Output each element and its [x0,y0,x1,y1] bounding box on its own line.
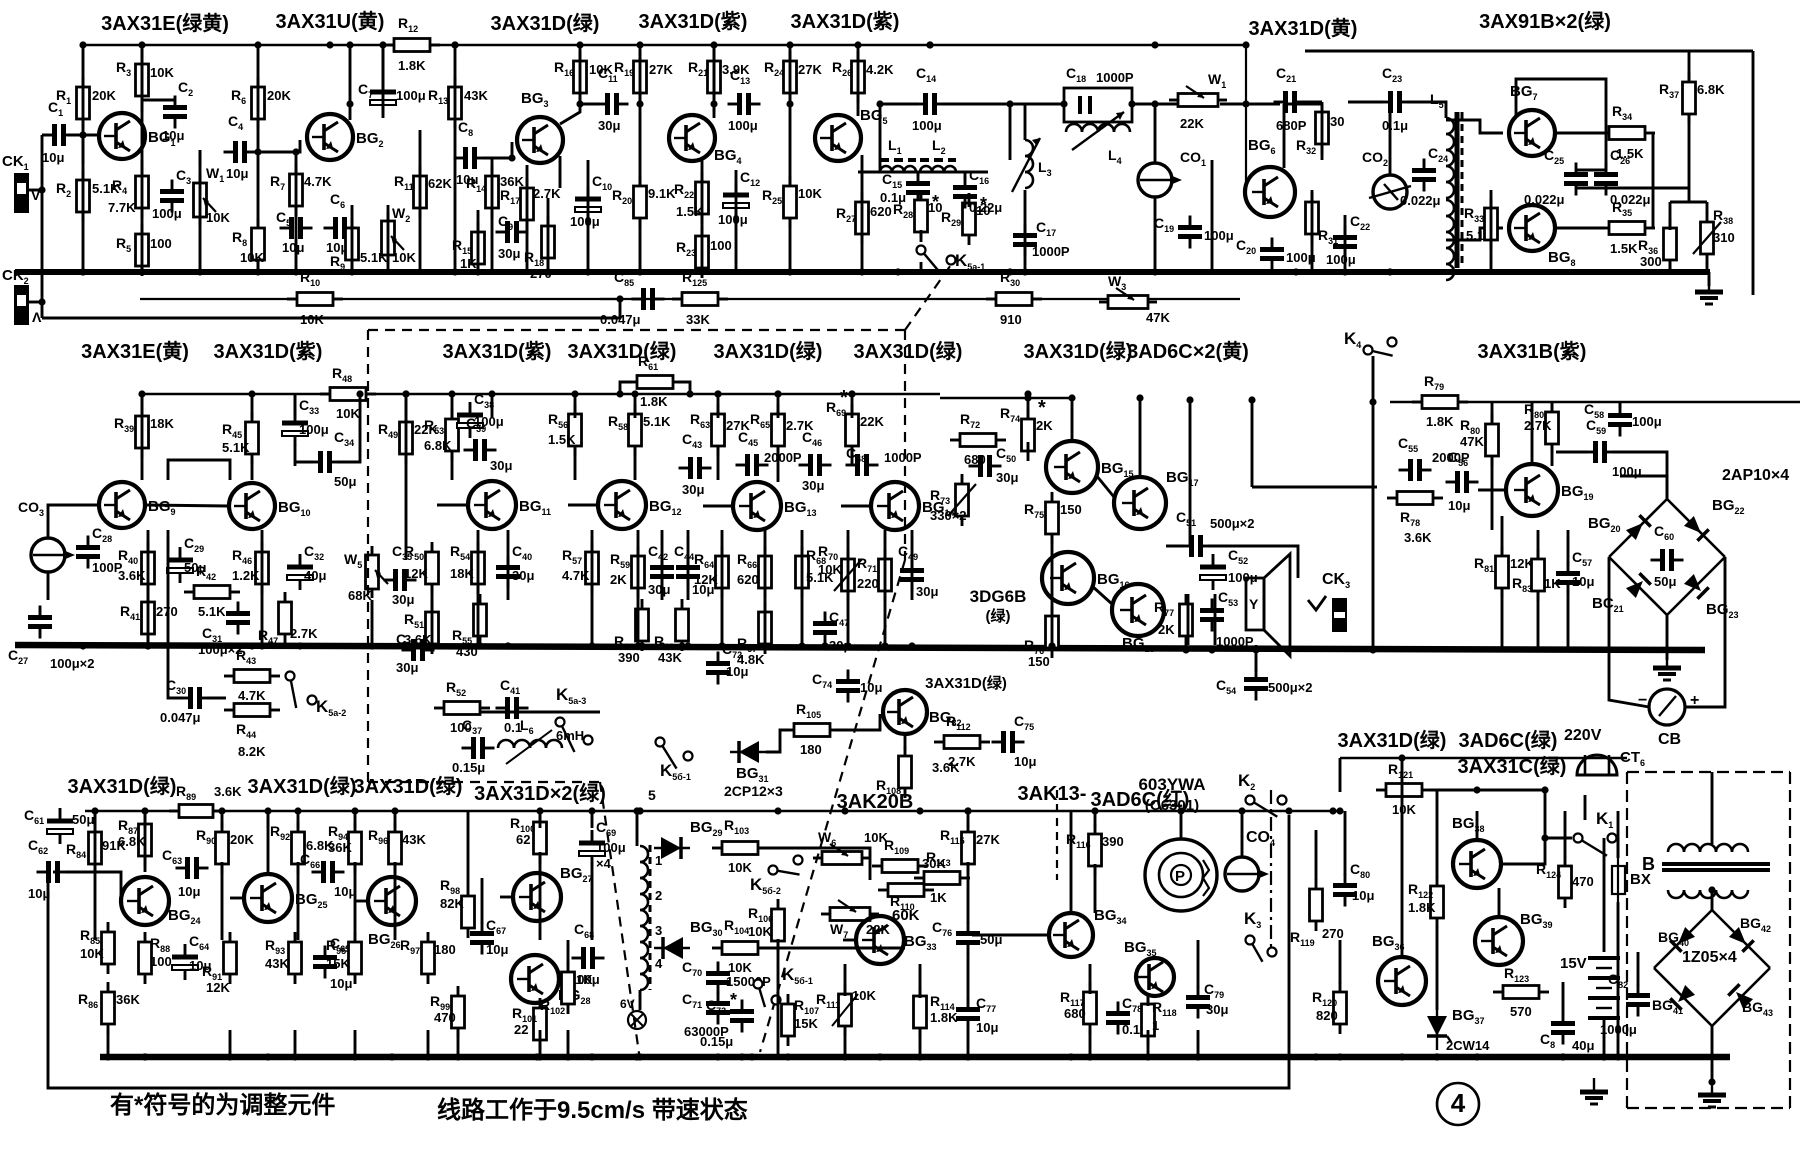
wire L5 top to BG7 [1446,120,1503,133]
junction mid bus x852 [848,390,855,397]
switch K2 [1238,771,1287,817]
label stage7 3AX91B [1479,9,1611,33]
svg-text:10μ: 10μ [28,886,50,901]
wire bot col dn x355 [354,1030,357,1057]
junction extra 432-646 [428,642,435,649]
wire top col x1155 [1154,196,1157,272]
junction bot gnd x845 [841,1053,848,1060]
wire C1 out [68,134,99,137]
transistor BG26 [368,877,416,950]
junction extra 1010-272 [1006,268,1013,275]
svg-text:100: 100 [150,236,172,251]
junction bot gnd x1148 [1144,1053,1151,1060]
switch K5a-1 [917,246,986,275]
transistor BG7 [1509,83,1555,156]
svg-text:8.2K: 8.2K [238,744,266,759]
switch K5a-2 [286,672,347,719]
wire BG14 base in [841,505,871,508]
wire R34 right vert [1652,133,1655,228]
resistor R89 [169,783,242,818]
junction extra 638-646 [634,642,641,649]
capacitor C44 [674,543,714,597]
resistor R81 [1474,546,1534,598]
junction extra 1477-790 [1473,786,1480,793]
wire top col x1312 [1311,190,1314,272]
label BG41 [1652,997,1683,1016]
wire xfmr top [1711,772,1714,844]
junction extra 1186-650 [1182,646,1189,653]
capacitor C54 [1216,668,1312,701]
capacitor C41 [496,677,529,735]
resistor R115 [940,822,1000,874]
battery 15V [1560,955,1620,1018]
svg-text:3AX31U(黄): 3AX31U(黄) [276,9,385,33]
wire CK1 tap [29,189,42,192]
svg-text:47K: 47K [1460,434,1484,449]
resistor R117 [1060,982,1097,1034]
junction extra 42-302 [38,298,45,305]
svg-text:10μ: 10μ [1352,888,1374,903]
wire bottom supply bus [85,810,1340,813]
head CO4 [1225,857,1269,891]
wire CK2 bottom line [42,317,620,320]
capacitor C69 [579,819,626,866]
dashed diag lower [760,560,905,1052]
svg-text:×4: ×4 [596,856,612,871]
wire bot extra x1345 [1344,811,1347,876]
label L1 [888,137,902,156]
wire bot col x268 [267,811,270,828]
transistor BG34 [1049,907,1127,957]
junction extra 592-1057 [588,1053,595,1060]
junction bot gnd x355 [351,1053,358,1060]
thermistor mark R111 [832,994,858,1026]
capacitor C71 [682,991,730,1039]
wire bot extra x298 [297,862,300,940]
switch K5b-1 [656,738,693,783]
wire mid col x635 [634,394,637,418]
resistor R14 [466,166,524,218]
resistor R53 [424,409,459,461]
resistor R93 [265,932,302,984]
wire mid extra x662 [661,530,664,600]
wire top col x388 [387,205,390,272]
resistor R121 [1376,761,1432,817]
label stage2 3AX31U [276,9,385,33]
svg-text:P: P [1175,868,1185,885]
label 3AX31D green small [925,674,1007,692]
svg-text:10μ: 10μ [486,942,508,957]
resistor R49 [378,412,438,464]
wire bot extra x1565 [1564,811,1567,858]
junction bot gnd x718 [714,1053,721,1060]
wire bot extra x1437 [1436,790,1439,878]
transistor BG13 [733,482,817,530]
resistor R63 [690,404,750,456]
wire mid extra x802 [801,530,804,600]
resistor R39 [114,406,174,458]
junction mid gnd x885 [881,642,888,649]
wire C23 to L5 [1407,102,1446,118]
label 3DG6B [970,587,1027,606]
wire bot extra x1340 [1339,758,1342,792]
svg-text:0.022μ: 0.022μ [1524,192,1565,207]
resistor R85 [80,922,115,974]
wire bot col x968 [967,811,970,828]
svg-text:(绿): (绿) [986,607,1011,625]
caption adjust note [110,1091,335,1119]
junction mid bus x452 [448,390,455,397]
junction extra 1296-272 [1292,268,1299,275]
resistor R107 [782,994,820,1046]
junction extra 662-646 [658,642,665,649]
capacitor C63 [162,847,209,899]
junction mid gnd x300 [296,642,303,649]
switch K1 [1574,809,1617,856]
svg-text:12K: 12K [694,572,718,587]
svg-text:1.8K: 1.8K [640,394,668,409]
junction extra 592-646 [588,642,595,649]
dashed box right [904,330,906,560]
junction extra 492-394 [488,390,495,397]
label m-stage5 3AX31D [714,339,823,363]
svg-text:300: 300 [1640,254,1662,269]
svg-text:2CW14: 2CW14 [1446,1038,1490,1053]
resistor R20 [612,176,676,228]
resistor R2 [56,170,120,222]
junction extra 1402-1057 [1398,1053,1405,1060]
junction bot gnd x1090 [1086,1053,1093,1060]
svg-text:4.7K: 4.7K [238,688,266,703]
svg-text:22K: 22K [1180,116,1204,131]
junction top bus x580 [576,41,583,48]
svg-text:0.047μ: 0.047μ [160,710,201,725]
wire C58 col [1619,402,1622,408]
svg-text:30μ: 30μ [396,660,418,675]
transistor BG36 [1372,933,1426,1005]
svg-text:30μ: 30μ [1206,1002,1228,1017]
wire BG34 base [972,934,1049,937]
wire C51 left [1166,545,1184,548]
transformer L5 [1430,91,1462,280]
dashed power box right [1789,772,1791,1108]
label b-stage2 3AX31D [248,774,357,798]
wire mid extra x1188 [1187,594,1190,645]
wire bot extra x1316 [1315,830,1318,880]
wire bot col dn x428 [427,1030,430,1057]
svg-text:1.8K: 1.8K [930,1010,958,1025]
resistor R110 [878,884,934,913]
diode BG40 [1670,927,1695,952]
junction mid gnd x372 [368,642,375,649]
capacitor C25 [1524,147,1588,207]
svg-text:470: 470 [434,1010,456,1025]
svg-text:150: 150 [1060,502,1082,517]
wire bridge right down [1685,557,1725,707]
label b-stage4 3AX31Dx2 [474,781,606,805]
junction extra 825-646 [821,642,828,649]
wire bot extra x920 [919,964,922,998]
wire join R10 line [619,299,622,318]
wire R2 top [82,135,85,164]
wire mid extra x778 [777,446,780,482]
capacitor C59 [1584,417,1642,479]
capacitor C51 [1176,509,1254,557]
transistor BG39 [1475,911,1553,965]
resistor R67 [737,602,772,667]
wire mid extra x765 [764,530,767,600]
junction gnd bus x548 [544,268,551,275]
junction mid bus x252 [248,390,255,397]
capacitor C30 [160,677,212,725]
wire mid extra x1052 [1051,645,1054,648]
capacitor C53 [1200,589,1254,649]
junction gnd bus x455 [451,268,458,275]
resistor R8 [232,218,265,270]
wire mid extra x148 [147,530,150,600]
resistor R100 [510,812,547,864]
capacitor C26 [1594,147,1651,207]
junction extra 920-811 [916,807,923,814]
wire bot col dn x568 [567,1030,570,1057]
label 60K [892,907,920,924]
wire bot extra x1148 [1147,996,1150,1006]
wire top supply bus [83,44,1246,47]
wire BG15 col up [1071,398,1074,441]
wire BG33 base [843,939,856,942]
svg-text:310: 310 [1713,230,1735,245]
resistor R33 [1464,198,1498,250]
wire bot extra x968 [967,862,970,924]
resistor R51 [404,602,439,654]
svg-text:10μ: 10μ [178,884,200,899]
svg-text:10K: 10K [1392,802,1416,817]
junction extra 1052-646 [1048,642,1055,649]
svg-text:*: * [730,990,737,1010]
wire bot extra x640 [639,990,642,1010]
wire mid col x252 [251,394,254,418]
switch K5a-3 [556,685,593,752]
resistor R37 [1659,72,1725,124]
wire output right border [1752,51,1755,295]
svg-text:15K: 15K [794,1016,818,1031]
svg-text:220V: 220V [1564,727,1602,744]
junction extra 1390-272 [1386,268,1393,275]
svg-text:100: 100 [150,954,172,969]
label stage6 3AX31D [1249,16,1358,40]
svg-text:30μ: 30μ [996,470,1018,485]
svg-text:1K: 1K [930,890,947,905]
junction bot gnd x1340 [1336,1053,1343,1060]
svg-text:20K: 20K [230,832,254,847]
svg-text:0.022μ: 0.022μ [1400,193,1441,208]
resistor R113 [914,849,970,905]
transistor BG28 [511,955,591,1006]
wire mid col x778 [777,394,780,418]
junction top bus x455 [451,41,458,48]
resistor R66 [737,546,772,598]
meter CB [1638,689,1699,748]
wire osc out right [760,848,870,880]
junction extra 406-646 [402,642,409,649]
junction extra 360-394 [356,390,363,397]
resistor R69 [826,399,884,456]
wire C34 line [295,461,313,464]
wire motor up [1180,811,1183,839]
wire middle supply bus [142,393,940,396]
switch K4 [1344,329,1397,356]
capacitor C34 [309,429,357,489]
wire mid col x295 [294,394,297,418]
svg-text:220: 220 [857,576,879,591]
label m-stage3 3AX31D [443,340,552,363]
svg-text:10K: 10K [728,860,752,875]
wire R6 col [257,45,260,272]
wire bot extra x1198 [1197,940,1200,988]
resistor R82 [1524,401,1559,454]
transformer T oscillator [640,787,663,990]
capacitor C28 [76,525,123,575]
junction extra 688-646 [684,642,691,649]
resistor R68 [796,546,835,598]
svg-text:30μ: 30μ [802,478,824,493]
junction extra 790-104 [786,100,793,107]
resistor R72 [950,411,1006,467]
wire mid col dn x478 [477,600,480,645]
resistor R50 [404,542,439,594]
wire CK1 vertical [41,135,44,318]
junction gnd bus x142 [138,268,145,275]
junction extra 1155-104 [1151,100,1158,107]
svg-text:*: * [932,192,939,212]
resistor R48 [320,365,376,421]
junction top bus x350 [346,41,353,48]
junction extra 1402-758 [1398,754,1405,761]
svg-text:1000P: 1000P [1032,244,1070,259]
wire mid extra x1552 [1551,402,1554,412]
resistor R102 [540,962,593,1016]
transistor BG24 [121,877,201,926]
junction bot gnd x920 [916,1053,923,1060]
wire BG13 base in [703,505,733,508]
wire bot extra x1095 [1094,864,1097,913]
resistor R7 [270,164,332,216]
svg-text:30μ: 30μ [598,118,620,133]
wire mid extra x722 [721,530,724,600]
junction gnd bus x200 [196,268,203,275]
svg-text:线路工作于9.5cm/s 带速状态: 线路工作于9.5cm/s 带速状态 [437,1096,748,1124]
junction top bus x383 [379,41,386,48]
junction bot bus x145 [141,807,148,814]
junction mid gnd x432 [428,642,435,649]
capacitor C14 [912,65,947,133]
wire CO4 up [1241,811,1244,857]
junction extra 968-811 [964,807,971,814]
capacitor C5 [276,209,313,255]
inductor L6 [498,740,562,748]
svg-text:6mH: 6mH [556,728,584,743]
junction extra 1545-838 [1541,834,1548,841]
resistor R41 [120,592,178,644]
transistor BG32 [883,690,962,734]
diode BG20 [1626,515,1651,540]
svg-text:10μ: 10μ [334,884,356,899]
dashed box bottom [368,781,600,783]
svg-text:570: 570 [1510,1004,1532,1019]
ground bridge [1653,654,1681,680]
junction extra 1246-104 [1242,100,1249,107]
wire C25C26 top tie [1576,169,1606,172]
junction extra 802-646 [798,642,805,649]
junction bot bus x95 [91,807,98,814]
dashed diag to K5a-1 [905,262,953,330]
wire bot extra x1477 [1476,811,1479,840]
svg-text:有*符号的为调整元件: 有*符号的为调整元件 [110,1091,335,1119]
svg-text:1Z05×4: 1Z05×4 [1682,949,1737,966]
svg-text:22K: 22K [860,414,884,429]
junction gnd bus x898 [894,268,901,275]
wire bot col dn x108 [107,1030,110,1057]
resistor R104 [712,917,768,975]
svg-text:43K: 43K [265,956,289,971]
capacitor C77 [956,995,998,1035]
junction extra 778-394 [774,390,781,397]
label m-stage7 3AX31D [1024,339,1133,363]
capacitor C20 [1236,237,1316,271]
svg-text:40μ: 40μ [304,568,326,583]
circled 4 [1437,1083,1479,1125]
junction extra 1437-1057 [1433,1053,1440,1060]
wire bot col dn x1148 [1147,1030,1150,1057]
wire bot col x95 [94,811,97,828]
wire mid extra x688 [687,530,690,600]
wire mid extra x295 [294,444,297,466]
wire plug down [1584,795,1587,820]
junction extra 885-646 [881,642,888,649]
wire mid extra x1492 [1491,402,1494,424]
switch K56-2 [750,856,803,897]
svg-text:4: 4 [1451,1088,1466,1118]
svg-text:3AX31D(绿): 3AX31D(绿) [248,774,357,798]
wire bot extra x395 [394,862,397,940]
svg-text:30μ: 30μ [648,582,670,597]
svg-text:3AX31D(绿): 3AX31D(绿) [925,674,1007,692]
svg-text:27K: 27K [649,62,673,77]
svg-text:100μ: 100μ [396,88,426,103]
diode BG22 [1684,516,1709,541]
junction gnd bus x702 [698,268,705,275]
capacitor C64 [172,933,211,980]
junction extra 640-1057 [636,1053,643,1060]
svg-text:30μ: 30μ [490,458,512,473]
junction mid gnd x480 [476,642,483,649]
wire CO1 up [1154,104,1157,163]
svg-text:5.1: 5.1 [1466,228,1484,243]
dashed box left [367,330,369,782]
resistor R23 [676,226,732,278]
svg-text:10μ: 10μ [976,1020,998,1035]
capacitor C72 [706,641,748,685]
dashed K2 vert [1056,790,1058,880]
wire speaker feed [1208,546,1298,578]
wire mid col dn x848 [847,600,850,645]
label BG31 [724,765,783,799]
svg-text:20K: 20K [92,88,116,103]
wire bot col x1095 [1094,811,1097,828]
wire BG7 collector loop [1516,79,1606,170]
svg-text:50μ: 50μ [334,474,356,489]
wire mid extra x905 [904,734,907,750]
